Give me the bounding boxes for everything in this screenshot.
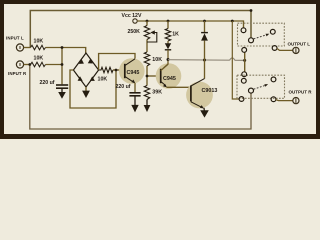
wire: top signal rail from input L to relay 1 pole — [30, 11, 251, 48]
connector: OUTPUT R jack — [293, 98, 299, 104]
diode D6 flyback (pointing up to rail) — [201, 21, 208, 79]
relay RL1 (box) — [238, 23, 285, 46]
contact: RL1 NO — [270, 29, 275, 34]
ground: bridge bottom — [82, 87, 90, 98]
relay arm RL1 (dashed with arrow) — [254, 34, 270, 39]
svg-text:OUTPUT L: OUTPUT L — [288, 42, 311, 47]
wire: Vcc rail — [137, 21, 243, 28]
ground: below C2 — [131, 96, 138, 112]
node: rail junction relay feed — [231, 20, 234, 23]
capacitor C1 220uf — [56, 85, 68, 88]
diode D3 (bottom-left edge) — [78, 76, 83, 81]
wire: relay coil column — [244, 52, 246, 72]
potentiometer VR1 250K — [144, 21, 157, 52]
svg-text:10K: 10K — [98, 77, 108, 83]
svg-text:220 uf: 220 uf — [116, 84, 131, 90]
diode D5 (below 1K, pointing down) — [165, 43, 171, 59]
svg-text:INPUT R: INPUT R — [8, 71, 27, 76]
node: snubber left junction — [167, 58, 170, 61]
connector: OUTPUT L jack — [293, 47, 299, 53]
svg-text:OUTPUT R: OUTPUT R — [289, 90, 313, 95]
terminal: RL2 output contact — [271, 97, 276, 102]
node: base loop junction — [115, 69, 118, 72]
contact: RL2 NC (bottom-left, to Vcc feed) — [239, 97, 244, 102]
capacitor C2 220uf — [129, 93, 140, 96]
svg-text:INPUT L: INPUT L — [6, 36, 24, 41]
resistor R5 39K (vertical) — [144, 86, 149, 100]
relay arm RL2 (dashed with arrow) — [254, 84, 269, 89]
transistor Q1 C945 — [119, 58, 145, 84]
wire: R4 to Q2 base node — [146, 66, 148, 86]
svg-text:1K: 1K — [172, 32, 179, 38]
node: rail junction 1K — [167, 20, 170, 23]
wire: Q2 emitter to Q3 base — [167, 86, 191, 88]
wire: snubber node to relay coils (with hop) — [168, 58, 245, 60]
svg-text:Vcc 12V: Vcc 12V — [122, 13, 142, 19]
wire: Q1 emitter down to C2 — [134, 83, 136, 92]
wire: Q2 collector up to snubber node — [161, 60, 168, 71]
svg-text:10K: 10K — [152, 57, 162, 63]
terminal: RL1 coil — [242, 48, 247, 53]
node: rail junction diode — [203, 20, 206, 23]
node: input R drop junction — [28, 63, 31, 66]
svg-text:250K: 250K — [128, 29, 141, 35]
connector: INPUT L jack — [16, 44, 30, 51]
resistor R3 10K (Q1 base) — [99, 67, 113, 72]
svg-text:220 uf: 220 uf — [40, 80, 55, 86]
wire: R3 to Q1 base — [113, 69, 125, 71]
wire: RL2 to output R jack — [276, 100, 293, 101]
svg-text:10K: 10K — [34, 38, 44, 44]
node: flyback junction — [203, 59, 206, 62]
diode D1 (top-left edge) — [79, 59, 84, 64]
resistor R1 10K (input L) — [31, 45, 46, 50]
svg-text:C945: C945 — [127, 70, 140, 76]
frame border — [0, 0, 320, 139]
resistor R2 10K (input R) — [31, 62, 46, 67]
resistor R4 10K (vertical) — [144, 52, 149, 66]
contact: RL2 pole — [249, 88, 254, 93]
terminal: RL2 coil — [242, 72, 247, 77]
wire: bridge right vertex up and over to Q1 collector — [99, 54, 135, 71]
resistor R6 1K with diode chain — [165, 21, 170, 44]
svg-text:10K: 10K — [34, 55, 44, 61]
contact: RL1 NC (to Vcc) — [241, 28, 246, 33]
svg-text:C945: C945 — [163, 76, 176, 82]
diode bridge D1-D4 — [73, 53, 98, 87]
connector: INPUT R jack — [16, 61, 30, 68]
transistor Q2 C945 — [156, 63, 182, 89]
node: mix with input R — [61, 63, 64, 66]
transistor Q3 C9013 — [186, 79, 217, 109]
svg-text:C9013: C9013 — [202, 88, 218, 94]
ground: Q3 emitter — [200, 108, 209, 118]
wire: input L to bridge top — [46, 48, 86, 54]
node: top-right corner junction — [250, 9, 253, 12]
ground: below C1 — [58, 89, 66, 99]
node: mix with input L — [61, 46, 64, 49]
contact: RL1 pole — [249, 38, 254, 43]
contact: RL2 NO — [271, 77, 276, 82]
connector: Vcc terminal — [133, 19, 137, 23]
diode D4 (bottom-right edge) — [90, 76, 95, 81]
wire: rail feed down left side of relays to relay2 NC contact — [232, 21, 239, 99]
wire: input R to mix node — [46, 64, 63, 66]
wire: bottom signal path input R to relay 2 pole — [30, 65, 251, 130]
wire: mix column x62 — [61, 48, 63, 85]
wire: bridge left vertex loop to Q1 base — [70, 70, 116, 108]
diode D2 (top-right edge) — [88, 59, 93, 64]
svg-text:39K: 39K — [152, 90, 162, 96]
relay RL2 (box) — [237, 75, 285, 98]
terminal: RL1 output contact — [272, 46, 277, 51]
wire: RL1 to output L jack — [277, 48, 293, 50]
wire: Q2 base — [147, 75, 161, 77]
node: Q2 base junction — [146, 75, 149, 78]
contact: RL2 upper-left — [241, 78, 246, 83]
node: rail junction pot — [146, 20, 149, 23]
node: coil column junction — [243, 59, 246, 62]
ground: below 39K — [144, 100, 151, 113]
